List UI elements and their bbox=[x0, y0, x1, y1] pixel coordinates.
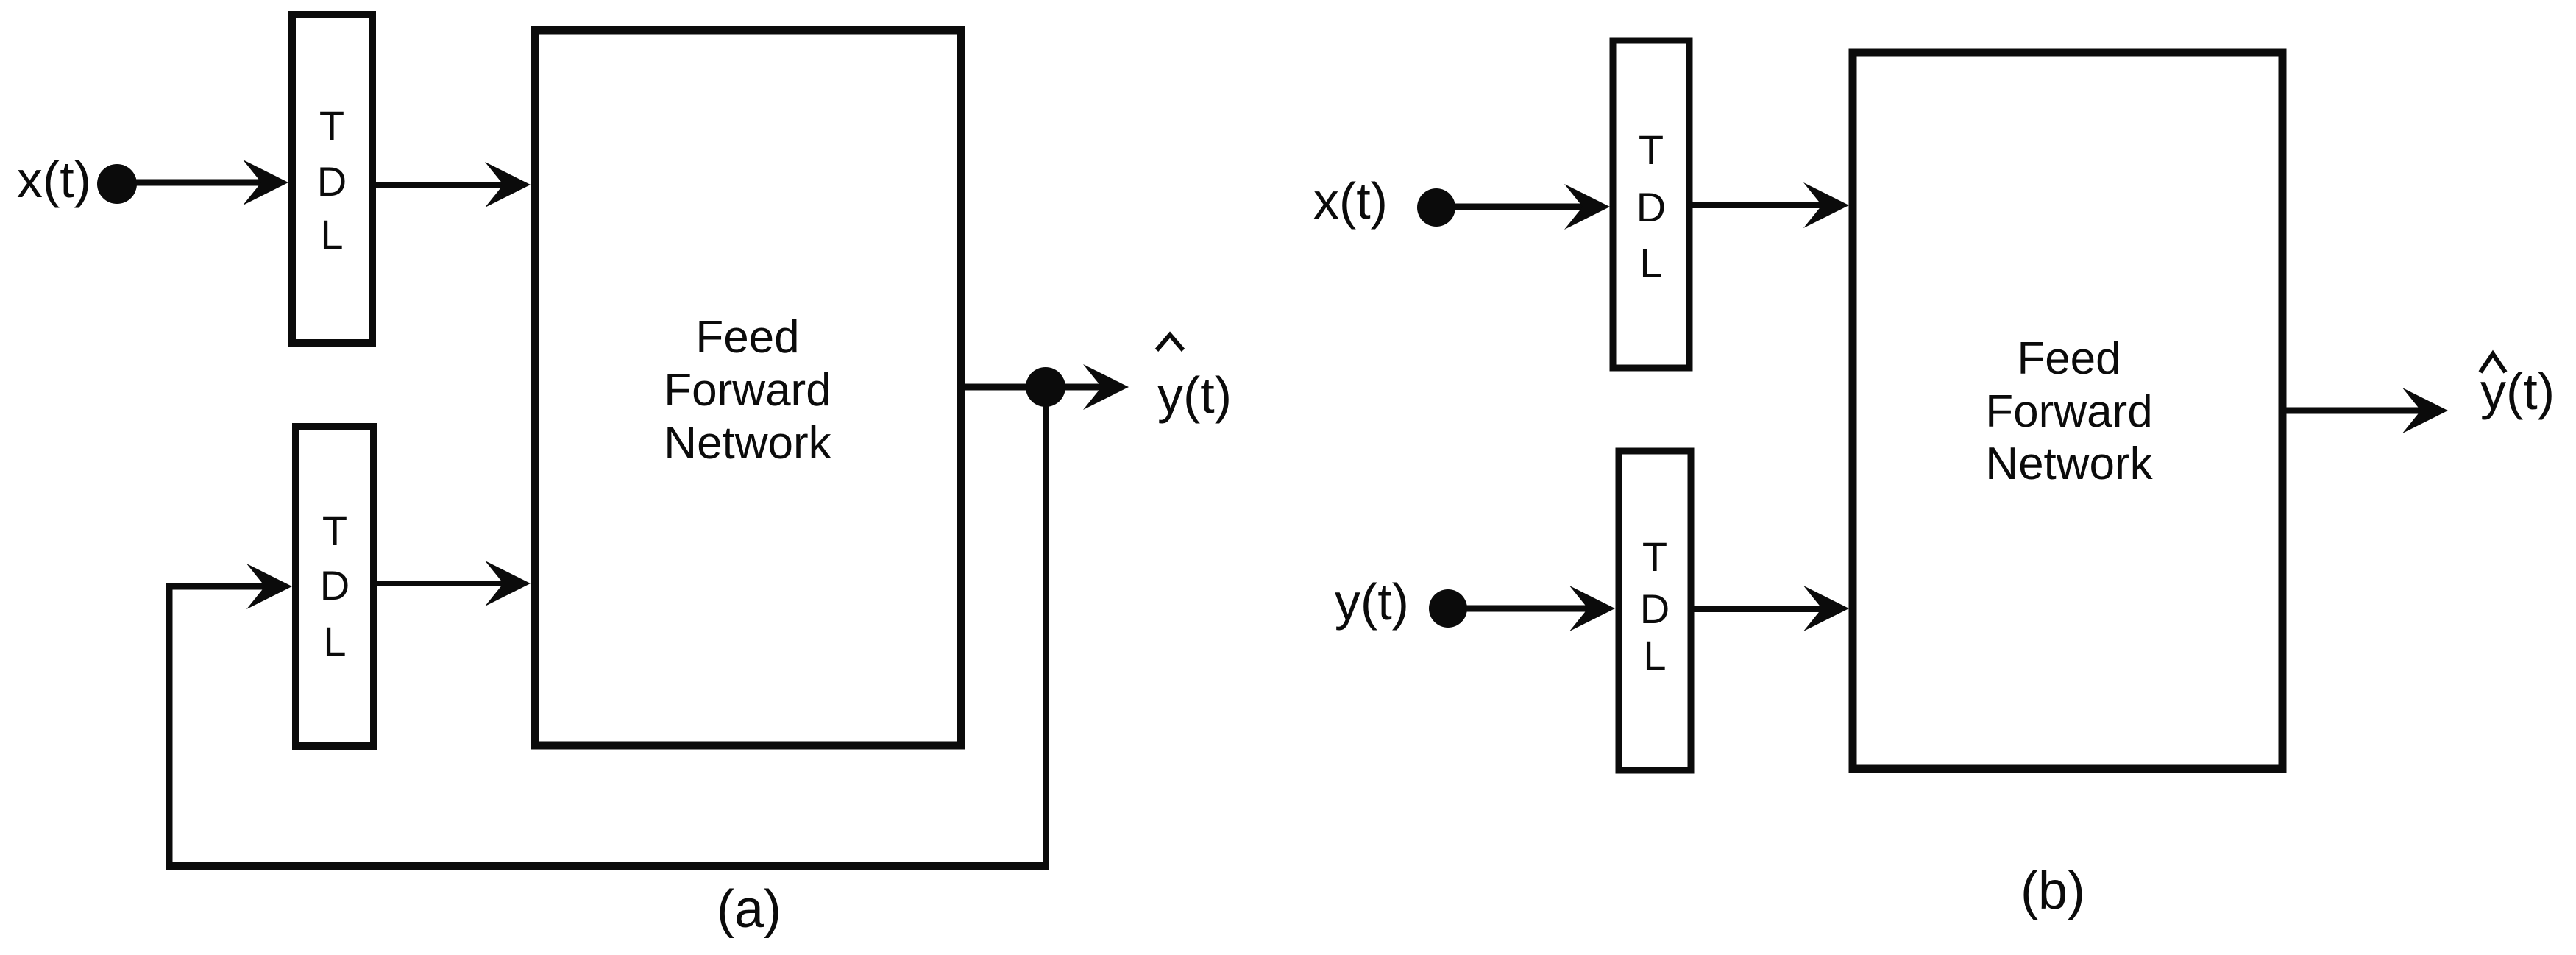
wire TDL1 to FFN (b) bbox=[1689, 202, 1825, 208]
block TDL2 (b) bbox=[1619, 451, 1691, 770]
block Feed Forward Network (b) bbox=[1853, 52, 2282, 769]
svg-text:D: D bbox=[317, 158, 347, 205]
svg-text:T: T bbox=[1642, 533, 1667, 580]
block Feed Forward Network (a) bbox=[535, 30, 961, 745]
svg-text:D: D bbox=[1640, 586, 1670, 632]
svg-text:L: L bbox=[323, 618, 346, 664]
arrowhead into FFN top input (a) bbox=[485, 162, 531, 207]
svg-text:L: L bbox=[320, 211, 343, 258]
node dot y(t) (b) bbox=[1429, 589, 1467, 628]
svg-text:y(t): y(t) bbox=[2480, 363, 2555, 420]
arrowhead into FFN bottom input (a) bbox=[485, 561, 531, 606]
arrowhead into TDL2 (a) bbox=[246, 564, 292, 609]
svg-text:Forward: Forward bbox=[1985, 386, 2152, 437]
wire feedback into TDL2 (a) bbox=[169, 583, 267, 590]
svg-text:T: T bbox=[1639, 127, 1664, 173]
wire FFN output to junction (a) bbox=[961, 384, 1046, 391]
arrowhead into TDL2 (b) bbox=[1569, 586, 1615, 631]
hat accent (b) bbox=[2480, 354, 2505, 372]
svg-text:x(t): x(t) bbox=[17, 151, 91, 208]
node dot x(t) (b) bbox=[1417, 188, 1455, 227]
wire TDL1 to FFN (a) bbox=[372, 182, 506, 188]
wire x(t) to TDL1 (b) bbox=[1436, 204, 1586, 210]
svg-text:Network: Network bbox=[664, 418, 831, 469]
svg-text:(b): (b) bbox=[2020, 862, 2085, 920]
wire x(t) to TDL1 (a) bbox=[117, 180, 263, 186]
svg-text:Feed: Feed bbox=[695, 312, 799, 363]
arrowhead into FFN bottom input (b) bbox=[1803, 586, 1849, 631]
svg-text:D: D bbox=[1636, 184, 1666, 230]
svg-text:T: T bbox=[319, 102, 344, 149]
wire feedback vertical from junction (a) bbox=[1043, 387, 1049, 866]
arrowhead output y(t) (b) bbox=[2402, 388, 2448, 433]
svg-text:T: T bbox=[322, 508, 347, 554]
svg-text:y(t): y(t) bbox=[1335, 573, 1409, 631]
wire feedback left vertical (a) bbox=[166, 583, 173, 866]
wire feedback bottom horizontal (a) bbox=[166, 862, 1049, 870]
wire y(t) to TDL2 (b) bbox=[1448, 606, 1592, 612]
svg-text:D: D bbox=[320, 562, 350, 608]
arrowhead output y(t) (a) bbox=[1083, 364, 1129, 410]
arrowhead into TDL1 (b) bbox=[1564, 184, 1610, 230]
junction dot output (a) bbox=[1026, 367, 1065, 407]
svg-text:Network: Network bbox=[1985, 439, 2153, 489]
svg-text:Forward: Forward bbox=[664, 365, 831, 416]
wire junction to output arrow (a) bbox=[1046, 384, 1104, 391]
svg-text:(a): (a) bbox=[717, 880, 781, 939]
block TDL2 (a) bbox=[296, 427, 374, 746]
svg-text:x(t): x(t) bbox=[1313, 172, 1388, 230]
svg-text:L: L bbox=[1643, 632, 1666, 678]
arrowhead into FFN top input (b) bbox=[1803, 182, 1849, 228]
wire FFN output (b) bbox=[2282, 408, 2424, 414]
svg-text:y(t): y(t) bbox=[1157, 366, 1232, 424]
wire TDL2 to FFN (a) bbox=[374, 581, 506, 586]
svg-text:Feed: Feed bbox=[2017, 333, 2121, 384]
node dot x(t) (a) bbox=[97, 164, 137, 204]
wire TDL2 to FFN (b) bbox=[1691, 606, 1825, 612]
arrowhead into TDL1 (a) bbox=[243, 160, 288, 205]
hat accent (a) bbox=[1157, 335, 1183, 350]
block TDL1 (a) bbox=[292, 15, 372, 343]
svg-text:L: L bbox=[1639, 240, 1662, 286]
block TDL1 (b) bbox=[1613, 40, 1689, 368]
